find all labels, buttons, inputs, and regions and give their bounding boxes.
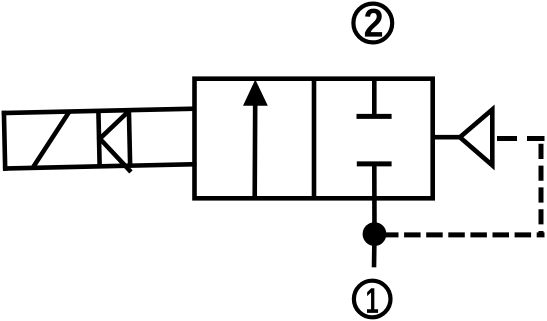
wire: solenoid top line <box>2 109 196 113</box>
solenoid coil slash <box>31 112 70 168</box>
port 2 label <box>365 9 382 37</box>
wire: node to port 1 <box>372 234 377 267</box>
flow arrow head <box>243 80 268 106</box>
valve body outline <box>195 79 433 199</box>
wire: solenoid bottom line <box>3 164 197 168</box>
valve position divider <box>312 79 317 199</box>
port 1 circle <box>354 281 391 318</box>
pilot triangle <box>460 110 492 166</box>
blocked port 1 stem / wire to node <box>372 164 377 234</box>
armature base line <box>129 110 130 165</box>
wire: valve to pilot triangle <box>433 135 460 140</box>
pilot dashed line top run <box>495 136 545 141</box>
flow arrow shaft <box>252 103 257 198</box>
port 1 label <box>367 288 378 313</box>
solenoid coil assembly (tilted group) <box>2 106 197 174</box>
pilot dashed line right vertical run <box>539 139 544 235</box>
solenoid box divider <box>98 111 99 166</box>
blocked port 2 bar <box>357 114 392 119</box>
solenoid box left edge <box>4 111 5 171</box>
pilot dashed line <box>375 232 545 237</box>
port 2 circle <box>353 4 392 43</box>
blocked port 2 stem <box>372 79 377 117</box>
node junction dot <box>363 222 387 246</box>
blocked port 1 bar <box>357 161 392 166</box>
armature triangle <box>99 111 131 173</box>
